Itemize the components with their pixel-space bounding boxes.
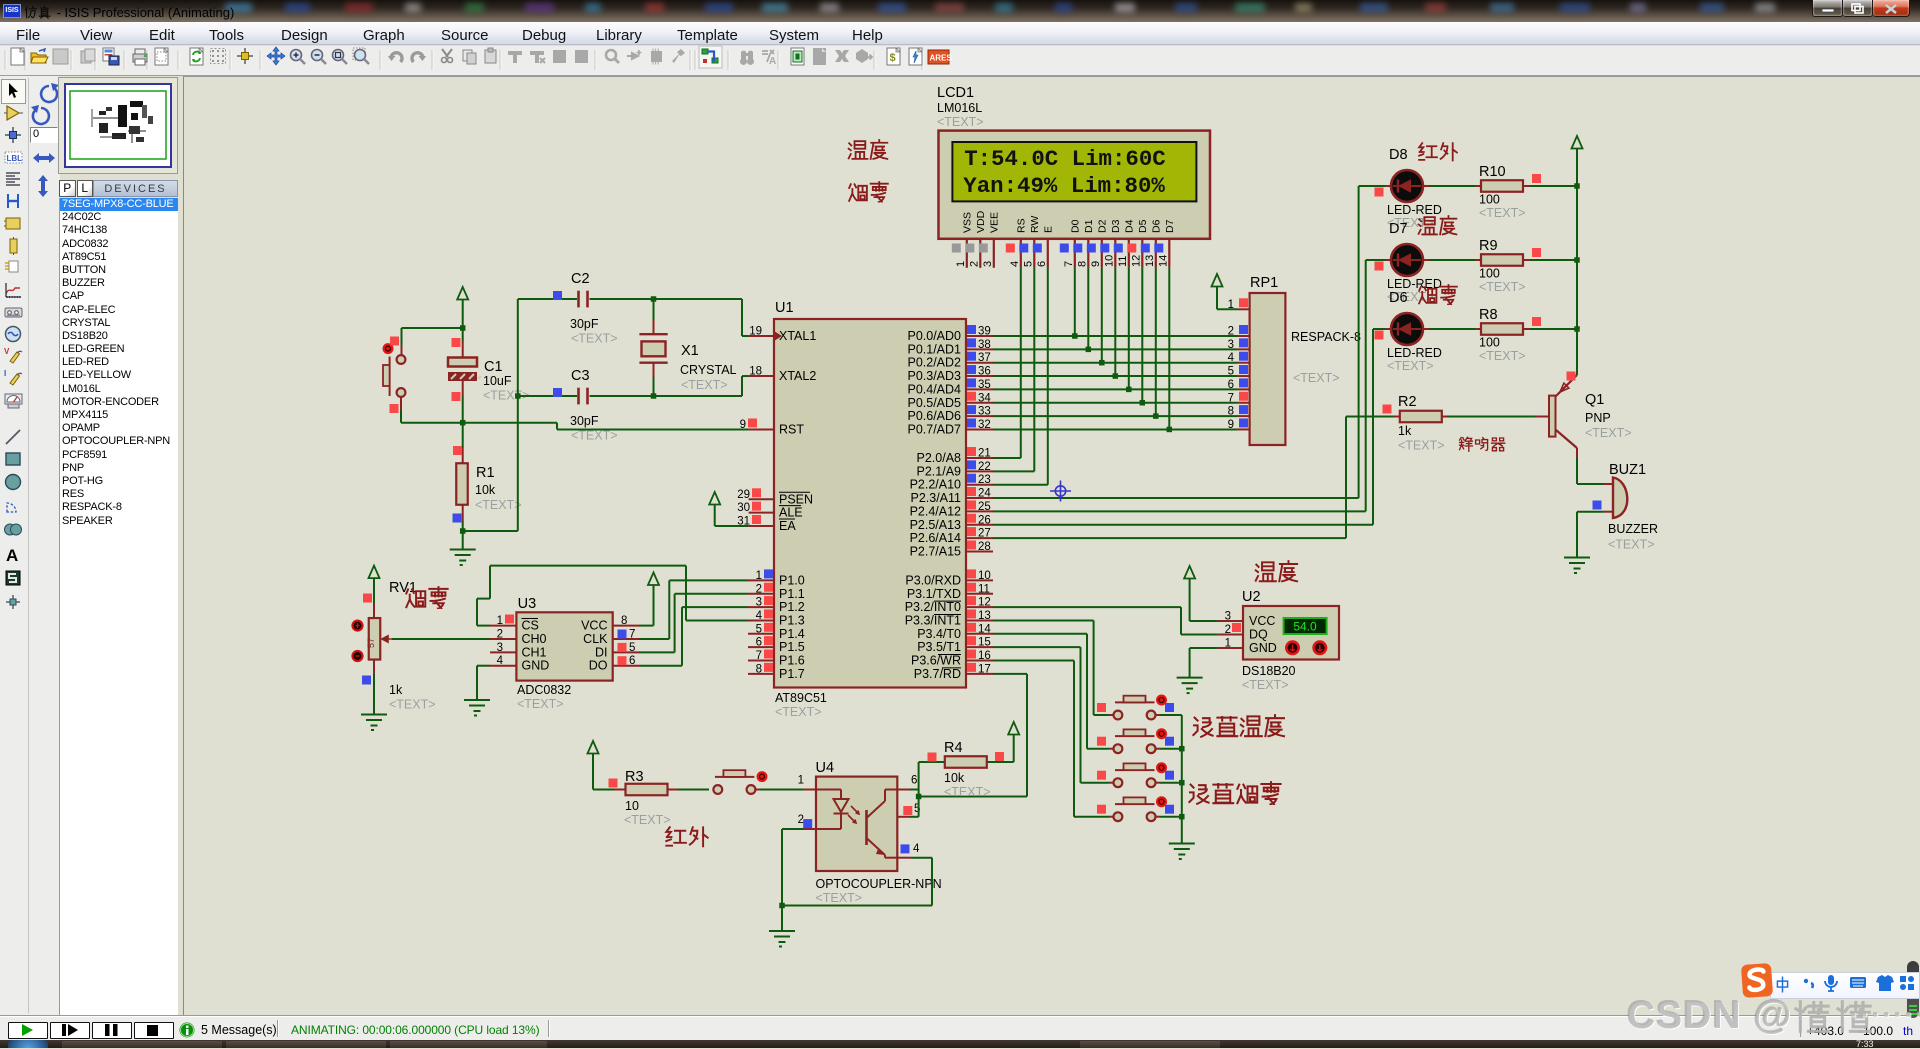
- svg-text:5: 5: [1228, 366, 1234, 378]
- svg-text:ARES: ARES: [930, 54, 953, 63]
- svg-text:<TEXT>: <TEXT>: [1608, 538, 1655, 552]
- svg-text:<TEXT>: <TEXT>: [389, 698, 436, 712]
- svg-text:RST: RST: [779, 422, 804, 436]
- svg-text:3: 3: [497, 642, 503, 654]
- svg-text:37: 37: [978, 352, 991, 364]
- svg-text:25: 25: [978, 501, 991, 513]
- svg-text:11: 11: [978, 583, 990, 595]
- svg-text:U1: U1: [775, 300, 794, 316]
- svg-text:100: 100: [1479, 193, 1500, 207]
- svg-text:PSEN: PSEN: [779, 492, 813, 506]
- svg-text:RP1: RP1: [1250, 275, 1278, 291]
- svg-text:D4: D4: [1123, 219, 1135, 233]
- svg-text:R2: R2: [1398, 394, 1417, 410]
- svg-text:10uF: 10uF: [483, 374, 512, 388]
- svg-text:CH1: CH1: [522, 645, 547, 659]
- svg-text:P2.7/A15: P2.7/A15: [910, 544, 961, 558]
- svg-text:2: 2: [968, 261, 980, 267]
- svg-text:6: 6: [756, 637, 762, 649]
- svg-text:1: 1: [756, 570, 762, 582]
- svg-text:C3: C3: [571, 368, 590, 384]
- svg-text:1: 1: [955, 261, 967, 267]
- svg-text:DS18B20: DS18B20: [1242, 664, 1296, 678]
- svg-text:EA: EA: [779, 519, 796, 533]
- svg-text:ADC0832: ADC0832: [517, 683, 571, 697]
- svg-text:30pF: 30pF: [570, 414, 599, 428]
- svg-text:36: 36: [978, 366, 991, 378]
- svg-text:D7: D7: [1164, 219, 1176, 233]
- svg-text:1k: 1k: [389, 683, 403, 697]
- svg-text:9: 9: [1090, 261, 1102, 267]
- svg-text:P0.1/AD1: P0.1/AD1: [907, 342, 961, 356]
- svg-text:P3.6/WR: P3.6/WR: [911, 654, 961, 668]
- svg-text:P3.2/INT0: P3.2/INT0: [905, 600, 961, 614]
- svg-text:R4: R4: [944, 740, 963, 756]
- svg-text:LED-RED: LED-RED: [1387, 203, 1442, 217]
- svg-text:A: A: [6, 546, 18, 565]
- svg-text:<TEXT>: <TEXT>: [1479, 280, 1526, 294]
- svg-text:33: 33: [978, 406, 991, 418]
- svg-text:VCC: VCC: [1249, 614, 1275, 628]
- svg-text:LBL: LBL: [7, 154, 23, 163]
- svg-text:GND: GND: [522, 659, 550, 673]
- svg-text:7: 7: [1063, 261, 1075, 267]
- svg-text:P3.4/T0: P3.4/T0: [917, 627, 961, 641]
- svg-text:ALE: ALE: [779, 506, 803, 520]
- svg-text:21: 21: [978, 448, 991, 460]
- svg-text:U3: U3: [518, 596, 537, 612]
- svg-text:4: 4: [756, 610, 763, 622]
- svg-text:18: 18: [749, 366, 762, 378]
- svg-text:LCD1: LCD1: [937, 85, 974, 101]
- svg-text:Yan:49% Lim:80%: Yan:49% Lim:80%: [963, 173, 1165, 199]
- svg-text:4: 4: [913, 843, 920, 855]
- svg-text:15: 15: [978, 637, 991, 649]
- svg-text:1k: 1k: [1398, 424, 1412, 438]
- svg-text:A: A: [769, 56, 776, 67]
- svg-text:1: 1: [497, 615, 503, 627]
- svg-text:LED-RED: LED-RED: [1387, 346, 1442, 360]
- svg-text:CRYSTAL: CRYSTAL: [680, 363, 737, 377]
- svg-text:P3.5/T1: P3.5/T1: [917, 640, 961, 654]
- svg-text:<TEXT>: <TEXT>: [517, 697, 564, 711]
- svg-text:<TEXT>: <TEXT>: [475, 498, 522, 512]
- svg-text:<TEXT>: <TEXT>: [937, 115, 984, 129]
- svg-text:P1.2: P1.2: [779, 600, 805, 614]
- svg-text:<TEXT>: <TEXT>: [775, 705, 822, 719]
- svg-text:54.0: 54.0: [1293, 620, 1317, 634]
- svg-text:D8: D8: [1389, 147, 1408, 163]
- svg-text:DQ: DQ: [1249, 628, 1268, 642]
- svg-text:T:54.0C Lim:60C: T:54.0C Lim:60C: [964, 146, 1166, 172]
- svg-text:3: 3: [756, 597, 762, 609]
- svg-text:D3: D3: [1110, 219, 1122, 233]
- svg-text:U4: U4: [816, 760, 835, 776]
- svg-text:P0.6/AD6: P0.6/AD6: [907, 409, 961, 423]
- svg-text:30: 30: [737, 502, 750, 514]
- svg-text:U2: U2: [1242, 589, 1261, 605]
- svg-text:57: 57: [366, 638, 376, 648]
- svg-text:VCC: VCC: [581, 619, 607, 633]
- svg-text:RESPACK-8: RESPACK-8: [1291, 330, 1361, 344]
- svg-text:6: 6: [1036, 261, 1048, 267]
- svg-text:DI: DI: [595, 645, 608, 659]
- svg-text:P3.1/TXD: P3.1/TXD: [907, 587, 961, 601]
- svg-text:P1.6: P1.6: [779, 654, 805, 668]
- svg-text:<TEXT>: <TEXT>: [624, 813, 671, 827]
- svg-text:5: 5: [1022, 261, 1034, 267]
- svg-text:D5: D5: [1137, 219, 1149, 233]
- svg-text:<TEXT>: <TEXT>: [571, 429, 618, 443]
- svg-text:P1.5: P1.5: [779, 640, 805, 654]
- svg-text:VDD: VDD: [975, 210, 987, 233]
- svg-text:VEE: VEE: [988, 212, 1000, 233]
- svg-text:10: 10: [1103, 255, 1115, 267]
- svg-text:P1.4: P1.4: [779, 627, 805, 641]
- svg-text:RV1: RV1: [389, 580, 417, 596]
- svg-text:8: 8: [1076, 261, 1088, 267]
- svg-text:13: 13: [1144, 255, 1156, 267]
- svg-text:4: 4: [1228, 352, 1235, 364]
- svg-text:3: 3: [982, 261, 994, 267]
- svg-text:RS: RS: [1015, 218, 1027, 233]
- svg-text:34: 34: [978, 392, 991, 404]
- svg-text:P0.4/AD4: P0.4/AD4: [907, 382, 961, 396]
- svg-text:26: 26: [978, 514, 991, 526]
- svg-text:P1.7: P1.7: [779, 667, 805, 681]
- svg-text:4: 4: [497, 655, 504, 667]
- svg-text:2: 2: [1228, 326, 1234, 338]
- svg-text:R3: R3: [625, 769, 644, 785]
- svg-text:32: 32: [978, 419, 991, 431]
- svg-text:P2.1/A9: P2.1/A9: [917, 464, 962, 478]
- svg-text:10: 10: [978, 570, 991, 582]
- svg-text:7: 7: [1228, 392, 1234, 404]
- svg-text:P0.2/AD2: P0.2/AD2: [907, 356, 961, 370]
- svg-text:P1.3: P1.3: [779, 613, 805, 627]
- svg-text:R1: R1: [476, 465, 495, 481]
- svg-text:10k: 10k: [944, 771, 965, 785]
- svg-text:12: 12: [978, 597, 991, 609]
- svg-text:CH0: CH0: [522, 632, 547, 646]
- svg-text:P0.3/AD3: P0.3/AD3: [907, 369, 961, 383]
- svg-text:PNP: PNP: [1585, 411, 1611, 425]
- svg-text:P2.4/A12: P2.4/A12: [910, 504, 961, 518]
- svg-text:V: V: [4, 347, 10, 356]
- svg-text:<TEXT>: <TEXT>: [1293, 371, 1340, 385]
- svg-text:3: 3: [1228, 339, 1234, 351]
- svg-text:RW: RW: [1029, 216, 1041, 233]
- svg-text:P0.0/AD0: P0.0/AD0: [907, 329, 961, 343]
- svg-text:9: 9: [1228, 419, 1234, 431]
- svg-text:14: 14: [978, 623, 991, 635]
- svg-text:GND: GND: [1249, 641, 1277, 655]
- svg-text:11: 11: [1117, 256, 1129, 267]
- svg-text:P2.5/A13: P2.5/A13: [910, 518, 961, 532]
- svg-text:1: 1: [798, 775, 804, 787]
- svg-text:14: 14: [1157, 255, 1169, 267]
- svg-text:XTAL1: XTAL1: [779, 329, 816, 343]
- svg-text:7: 7: [629, 629, 635, 641]
- svg-text:2: 2: [1225, 624, 1231, 636]
- svg-text:13: 13: [978, 610, 991, 622]
- svg-text:OPTOCOUPLER-NPN: OPTOCOUPLER-NPN: [816, 877, 942, 891]
- svg-text:VSS: VSS: [961, 212, 973, 233]
- svg-text:D1: D1: [1083, 219, 1095, 233]
- svg-text:8: 8: [621, 615, 627, 627]
- svg-text:CLK: CLK: [583, 632, 608, 646]
- svg-text:2: 2: [497, 629, 503, 641]
- svg-text:38: 38: [978, 339, 991, 351]
- svg-text:D7: D7: [1389, 221, 1408, 237]
- svg-text:R9: R9: [1479, 238, 1498, 254]
- svg-text:10: 10: [625, 799, 639, 813]
- svg-text:<TEXT>: <TEXT>: [681, 378, 728, 392]
- svg-text:I: I: [4, 369, 6, 378]
- svg-text:C2: C2: [571, 271, 590, 287]
- svg-text:P2.3/A11: P2.3/A11: [910, 491, 961, 505]
- svg-text:P3.0/RXD: P3.0/RXD: [905, 573, 961, 587]
- svg-text:P2.2/A10: P2.2/A10: [910, 478, 961, 492]
- svg-text:100: 100: [1479, 267, 1500, 281]
- svg-text:28: 28: [978, 541, 991, 553]
- svg-text:<TEXT>: <TEXT>: [1242, 678, 1289, 692]
- svg-text:XTAL2: XTAL2: [779, 369, 816, 383]
- svg-text:3: 3: [1225, 611, 1231, 623]
- svg-text:BUZZER: BUZZER: [1608, 522, 1658, 536]
- svg-text:LM016L: LM016L: [937, 101, 982, 115]
- svg-text:30pF: 30pF: [570, 317, 599, 331]
- svg-text:100: 100: [1479, 336, 1500, 350]
- svg-text:C1: C1: [484, 359, 503, 375]
- svg-text:29: 29: [737, 489, 750, 501]
- svg-text:P3.3/INT1: P3.3/INT1: [905, 613, 961, 627]
- svg-text:4: 4: [1009, 261, 1021, 267]
- svg-text:E: E: [1042, 226, 1054, 233]
- svg-text:R8: R8: [1479, 307, 1498, 323]
- svg-text:P1.0: P1.0: [779, 573, 805, 587]
- svg-text:P2.6/A14: P2.6/A14: [910, 531, 961, 545]
- svg-text:Q1: Q1: [1585, 392, 1604, 408]
- svg-text:<TEXT>: <TEXT>: [1585, 426, 1632, 440]
- svg-text:D6: D6: [1389, 290, 1408, 306]
- svg-text:8: 8: [756, 663, 762, 675]
- svg-text:2: 2: [756, 583, 762, 595]
- svg-text:<TEXT>: <TEXT>: [1398, 439, 1445, 453]
- svg-text:<TEXT>: <TEXT>: [571, 332, 618, 346]
- svg-text:<TEXT>: <TEXT>: [944, 785, 991, 799]
- svg-text:5: 5: [756, 623, 762, 635]
- svg-text:19: 19: [749, 326, 762, 338]
- svg-text:5: 5: [629, 642, 635, 654]
- svg-text:P2.0/A8: P2.0/A8: [917, 451, 962, 465]
- svg-text:17: 17: [978, 663, 991, 675]
- svg-text:6: 6: [911, 775, 917, 787]
- svg-text:7: 7: [756, 650, 762, 662]
- svg-text:D6: D6: [1150, 219, 1162, 233]
- svg-text:27: 27: [978, 528, 991, 540]
- svg-text:<TEXT>: <TEXT>: [816, 891, 863, 905]
- svg-text:24: 24: [978, 488, 991, 500]
- svg-text:6: 6: [1228, 379, 1234, 391]
- svg-text:<TEXT>: <TEXT>: [1479, 349, 1526, 363]
- svg-text:BUZ1: BUZ1: [1609, 462, 1646, 478]
- svg-text:23: 23: [978, 474, 991, 486]
- svg-text:2: 2: [798, 814, 804, 826]
- svg-text:22: 22: [978, 461, 991, 473]
- svg-text:P1.1: P1.1: [779, 587, 805, 601]
- svg-text:AT89C51: AT89C51: [775, 691, 827, 705]
- svg-text:39: 39: [978, 326, 991, 338]
- svg-text:P3.7/RD: P3.7/RD: [914, 667, 961, 681]
- svg-text:1: 1: [1225, 638, 1231, 650]
- svg-text:P0.5/AD5: P0.5/AD5: [907, 396, 961, 410]
- svg-text:P0.7/AD7: P0.7/AD7: [907, 422, 961, 436]
- svg-text:DO: DO: [589, 659, 608, 673]
- svg-text:12: 12: [1130, 255, 1142, 267]
- svg-text:<TEXT>: <TEXT>: [1479, 206, 1526, 220]
- svg-text:6: 6: [629, 655, 635, 667]
- svg-text:35: 35: [978, 379, 991, 391]
- svg-text:X1: X1: [681, 343, 699, 359]
- svg-text:$: $: [890, 52, 896, 64]
- svg-text:D2: D2: [1096, 219, 1108, 233]
- svg-text:D0: D0: [1069, 219, 1081, 233]
- svg-text:CS: CS: [522, 619, 539, 633]
- svg-text:10k: 10k: [475, 483, 496, 497]
- svg-text:R10: R10: [1479, 164, 1506, 180]
- svg-text:16: 16: [978, 650, 991, 662]
- svg-text:8: 8: [1228, 406, 1234, 418]
- svg-text:<TEXT>: <TEXT>: [1387, 359, 1434, 373]
